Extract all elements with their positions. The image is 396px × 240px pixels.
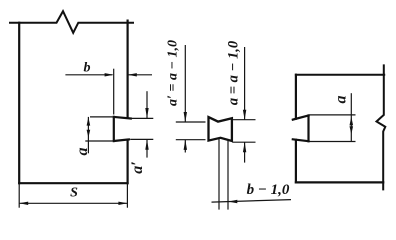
arrowhead a right plate up [350,117,354,126]
arrowhead key-left dim down [184,112,187,122]
dimension b extension line [113,69,115,115]
right plate left edge lower [295,140,297,183]
right plate bottom edge [296,181,383,183]
right plate top edge [296,74,384,76]
arrowhead key-left dim up [184,140,187,150]
dimension S extension right [126,183,128,208]
right plate notch top wall [293,116,309,120]
key right dimension extension upper [232,119,255,121]
left plate notch top wall [114,117,131,119]
right plate left edge upper [295,75,297,119]
dimension a-prime left plate line upper [146,91,148,118]
left plate top edge with break zigzag [10,11,133,33]
arrowhead key-right dim down [243,110,246,120]
svg-text:a: a [333,96,350,104]
arrowhead a right plate down [350,126,354,134]
arrowhead a-prime up [145,140,148,150]
dimension a left plate extension upper [90,116,113,118]
dimension a left plate extension lower [85,140,112,142]
arrowhead key-right dim up [243,142,246,152]
arrowhead S left-pointing [19,202,28,205]
right plate notch floor [307,116,309,142]
svg-text:S: S [70,186,78,201]
left plate bottom edge [19,182,127,184]
dimension a right plate extension lower [310,141,356,143]
right plate right edge with break zigzag [377,65,386,189]
right plate notch bottom wall [293,139,309,141]
dimension b line left part [65,74,112,76]
arrowhead a left plate up [87,117,91,125]
dimension a right plate line [350,93,352,141]
dimension b-1,0 line [212,200,292,203]
svg-text:b − 1,0: b − 1,0 [247,182,290,198]
dimension b-1,0 extension left [218,139,220,210]
dimension a right plate extension upper [310,114,356,116]
arrowhead b right-pointing [105,73,114,76]
arrowhead b left-pointing [128,73,137,76]
dimension a-prime left plate line lower [146,140,148,158]
dimension a left plate line [87,117,89,153]
dimension S extension left [18,183,20,208]
svg-text:b: b [84,61,91,76]
dimension b-1,0 extension right [227,141,229,210]
key right dimension extension lower [232,141,255,143]
key left dimension extension lower [176,139,206,141]
arrowhead a-prime down [145,108,148,118]
svg-text:a′ = a − 1,0: a′ = a − 1,0 [166,40,181,106]
left plate right edge lower [126,140,128,184]
key left dimension line lower [184,140,186,153]
arrowhead a left plate down [87,130,91,138]
svg-text:a = a − 1,0: a = a − 1,0 [226,41,242,105]
dimension S line [19,202,127,204]
left plate right edge upper [126,21,128,118]
key right dimension line upper [244,47,246,120]
key left dimension extension upper [176,121,206,123]
left plate notch floor [113,117,115,141]
key left dimension line upper [184,45,186,122]
left plate notch bottom wall [114,139,129,141]
dimension b line right part [128,74,152,76]
key right dimension line lower [244,142,246,162]
dimension a-prime extension upper [132,117,154,119]
arrowhead S right-pointing [118,202,127,205]
arrowhead b-1,0 left-pointing [228,200,237,203]
svg-text:a: a [74,148,91,156]
dovetail key outline [209,117,232,141]
dimension a-prime extension lower [130,138,153,140]
svg-text:a′: a′ [129,161,146,174]
left plate left edge [18,23,20,184]
